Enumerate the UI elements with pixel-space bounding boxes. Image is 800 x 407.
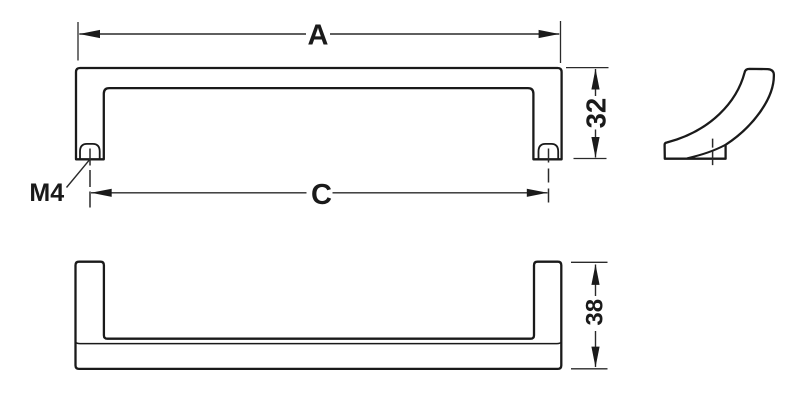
svg-text:32: 32 xyxy=(581,98,612,129)
svg-text:M4: M4 xyxy=(29,179,64,207)
svg-text:A: A xyxy=(308,20,329,52)
svg-text:C: C xyxy=(311,179,332,211)
svg-text:38: 38 xyxy=(582,299,609,326)
